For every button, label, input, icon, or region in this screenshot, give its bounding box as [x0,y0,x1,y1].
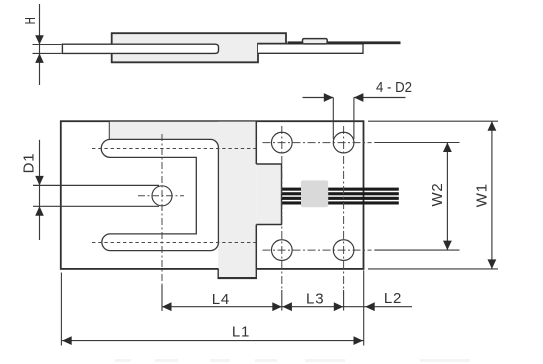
svg-text:L1: L1 [232,324,250,341]
U-slot (flexure cut) [101,139,218,250]
wires [282,188,399,205]
L4 L3 L2 dimension line [162,306,412,308]
mounting hole bottom-right [333,240,354,261]
mounting hole centerline vertical left [281,126,283,290]
mounting hole top-right [333,132,354,153]
L2 arrow [365,302,375,311]
L4 arrows [162,302,172,311]
top band left edge [108,122,110,141]
mounting hole centerlines horizontal bottom [263,249,372,251]
raised block center column [218,122,256,279]
mounting hole top-left [271,132,292,153]
dimension H arrows [35,35,44,44]
center column right edge [255,121,257,164]
tongue hole centerline horizontal [138,195,184,197]
svg-text:L2: L2 [384,290,402,307]
dimension H line [39,4,41,85]
dimension W1 extension lines [368,120,498,122]
dimension W2 extension lines [374,142,459,144]
slot arm centerline bottom [92,242,257,244]
svg-text:L4: L4 [212,291,230,308]
svg-text:W2: W2 [429,182,446,206]
svg-text:D1: D1 [21,153,38,174]
cable sleeve [301,180,328,207]
svg-text:H: H [22,17,39,25]
raised block top band [109,122,256,149]
side view slot / thin beam [62,44,218,53]
dimension W1 line [491,121,493,269]
cable tab [256,164,281,225]
tongue hole [152,186,172,206]
cable tab outline [256,164,281,225]
side view body block [112,33,286,62]
dimension H extension lines [33,44,62,46]
cable (side view) [288,41,401,44]
body outline [61,121,364,269]
strain gauge cover (side view) [303,39,328,44]
tongue slot lines [33,184,159,186]
svg-text:4 - D2: 4 - D2 [376,79,412,96]
dimension 4-D2 extension lines (hole tangents) [332,98,334,140]
dimension D1 lines [39,140,41,240]
dimension L1 line [61,340,363,342]
L dimensions extension lines [60,273,62,346]
mounting hole centerlines horizontal top [263,142,372,144]
svg-text:W1: W1 [474,183,491,207]
svg-text:L3: L3 [306,291,324,308]
slot arm centerline top [92,148,257,150]
mounting hole centerline vertical right [343,126,345,290]
dimension 4-D2 lines and arrows [303,97,334,99]
dimension W2 line [446,143,448,251]
tongue hole centerline vertical [161,134,163,285]
faint cropped text row at bottom [115,359,470,362]
mounting hole bottom-left [271,240,292,261]
side view lower plate strip [258,44,363,53]
L3 arrows [282,302,292,311]
bottom protrusion of column [218,269,256,279]
